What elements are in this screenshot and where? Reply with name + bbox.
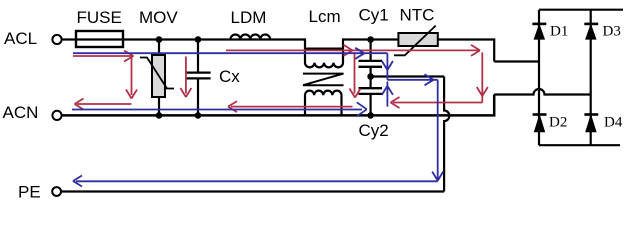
junction Cy2 bottom — [367, 112, 374, 119]
wire top rail choke to bridge corner — [343, 40, 494, 62]
wire Cx branch — [197, 40, 199, 116]
choke Lcm core — [303, 74, 344, 86]
red arrow top-left segment — [73, 51, 134, 62]
junction Cy1 top — [367, 36, 374, 43]
svg-text:Cx: Cx — [219, 67, 240, 86]
red arrow main top line LDM to bridge — [226, 45, 480, 56]
choke Lcm top winding — [305, 38, 343, 67]
red arrow return below choke — [228, 101, 353, 112]
blue arrow top common-mode line — [73, 48, 387, 59]
inductor LDM — [230, 35, 270, 40]
capacitor Cx plates — [185, 73, 211, 79]
red arrow down before Cx — [180, 57, 191, 98]
svg-text:NTC: NTC — [400, 6, 435, 25]
terminal ACN — [52, 111, 61, 120]
capacitor Cy2 plates — [359, 88, 383, 94]
junction MOV top — [156, 36, 163, 43]
blue arrow bottom common-mode line — [72, 102, 367, 116]
svg-text:FUSE: FUSE — [77, 8, 122, 27]
capacitor Cy1 plates — [359, 61, 383, 67]
diode D4 — [584, 115, 598, 132]
wire AC stub bottom with hop over left leg — [494, 89, 591, 95]
wire MOV branch — [158, 40, 160, 116]
varistor MOV diagonal — [140, 58, 174, 89]
red arrow return from bridge — [391, 97, 483, 108]
red arrow down at bridge input — [477, 52, 488, 102]
wire top rail ACL to choke — [62, 38, 305, 40]
thermistor NTC body — [398, 33, 437, 46]
junction Cx top — [195, 36, 202, 43]
bridge bottom bar DC- — [539, 144, 620, 146]
wire AC stub top to bridge left leg — [494, 60, 539, 62]
wire bottom rail ACN to bridge corner — [62, 95, 495, 116]
red arrow return to ACN — [75, 99, 132, 110]
blue arrow up through Cy2 — [382, 82, 393, 107]
svg-text:D1: D1 — [550, 24, 568, 40]
diode D2 — [533, 115, 547, 132]
wire PE rail — [61, 190, 444, 192]
junction MOV bottom — [156, 112, 163, 119]
varistor MOV body — [152, 55, 165, 97]
choke Lcm bottom winding — [305, 91, 342, 116]
thermistor NTC diagonal — [394, 26, 436, 56]
blue arrow midpoint to PE drop — [387, 74, 437, 85]
red arrow down through Cy — [350, 52, 361, 97]
svg-text:ACL: ACL — [4, 29, 37, 48]
svg-text:Lcm: Lcm — [309, 7, 341, 26]
junction Cx bottom — [195, 112, 202, 119]
svg-text:LDM: LDM — [231, 8, 267, 27]
terminal PE — [52, 187, 61, 196]
wire PE drop vertical with hop over ACN rail — [444, 77, 449, 192]
diode D3 — [584, 24, 598, 39]
wire Cy column — [370, 40, 372, 116]
svg-text:D4: D4 — [604, 115, 623, 131]
junction Cy midpoint — [367, 73, 374, 80]
blue arrow down to PE — [432, 80, 443, 182]
terminal ACL — [52, 35, 61, 44]
svg-text:D2: D2 — [549, 115, 567, 131]
diode D1 — [532, 24, 546, 39]
fuse F1 body — [76, 31, 123, 47]
svg-text:ACN: ACN — [3, 103, 39, 122]
wire Cy midpoint to PE drop — [371, 75, 445, 77]
svg-text:MOV: MOV — [139, 8, 178, 27]
bridge left leg — [538, 10, 540, 146]
bridge top bar DC+ — [539, 9, 623, 11]
svg-text:Cy2: Cy2 — [359, 121, 389, 140]
svg-text:PE: PE — [18, 183, 41, 202]
svg-text:Cy1: Cy1 — [359, 5, 389, 24]
svg-text:D3: D3 — [603, 24, 621, 40]
blue arrow PE return line — [73, 176, 438, 187]
red arrow down before MOV — [126, 56, 137, 99]
blue arrow down through Cy1 — [382, 53, 393, 80]
bridge right leg — [590, 10, 592, 146]
